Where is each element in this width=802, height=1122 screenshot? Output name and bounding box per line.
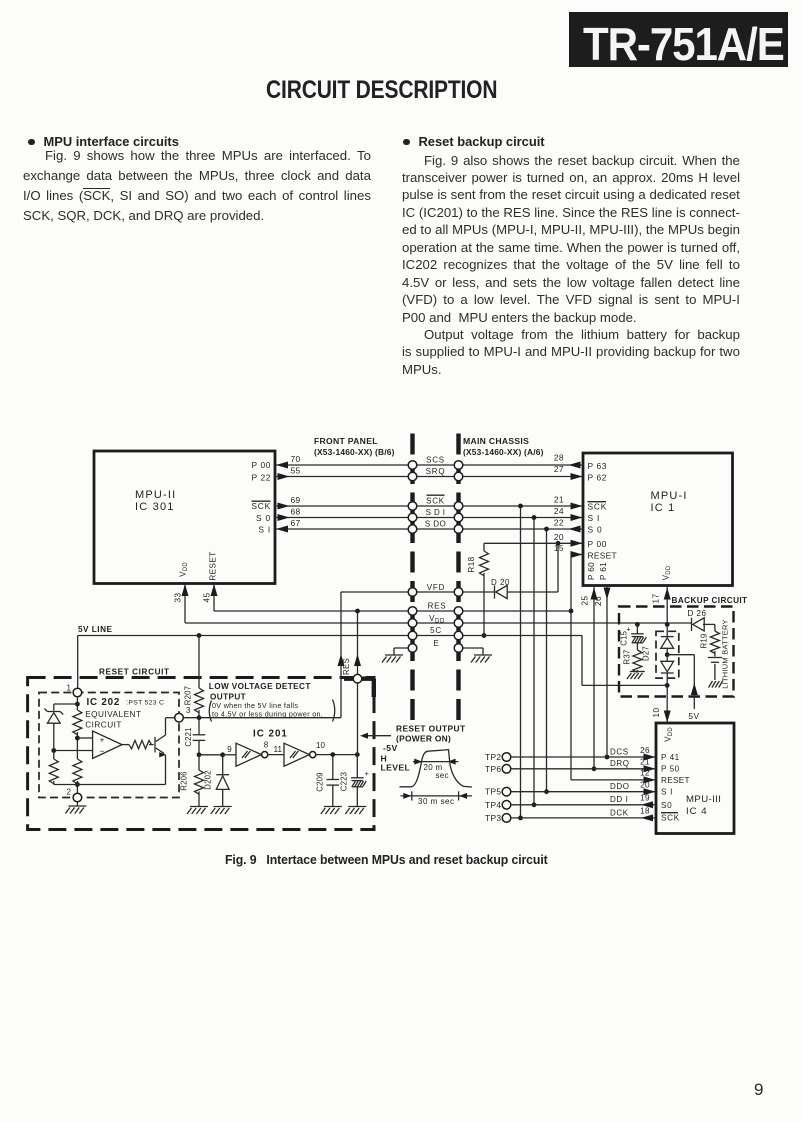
- wire P00 into MPU-I pin 20: [554, 532, 583, 547]
- svg-text:S I: S I: [661, 788, 673, 797]
- zener diode: [44, 709, 63, 751]
- svg-text:TP6: TP6: [485, 764, 501, 774]
- svg-text:P 62: P 62: [588, 473, 607, 483]
- resistor R207: [184, 636, 204, 718]
- svg-text:SCK: SCK: [426, 496, 445, 505]
- svg-text:RESET OUTPUT: RESET OUTPUT: [396, 724, 466, 734]
- vertical wire SDO to DDO: [544, 527, 549, 795]
- svg-text:68: 68: [290, 506, 300, 516]
- wire D20 to P00 junction: [508, 541, 561, 592]
- wire P22-SRQ-P62 row: [275, 464, 583, 480]
- wire MPU-I VDD pin 17 down into backup: [652, 587, 671, 637]
- svg-text:S D I: S D I: [426, 508, 446, 517]
- net labels SCS SRQ SCK SDI SDO: [425, 455, 446, 528]
- svg-text:RES: RES: [342, 658, 351, 675]
- svg-text:MAIN CHASSIS: MAIN CHASSIS: [463, 436, 529, 446]
- svg-text:D27: D27: [642, 646, 651, 661]
- svg-text:P 00: P 00: [588, 539, 607, 549]
- svg-text:SCK: SCK: [661, 814, 680, 823]
- emitter rail: [54, 784, 166, 786]
- vertical wire RES to MPU-III RESET: [569, 555, 656, 784]
- svg-text:10: 10: [316, 741, 325, 750]
- svg-text:P 00: P 00: [252, 460, 271, 470]
- wire E row left stub + ground: [382, 639, 440, 663]
- svg-text:DCS: DCS: [610, 747, 629, 756]
- svg-text:CIRCUIT: CIRCUIT: [85, 721, 122, 730]
- MPU-III pin labels: [661, 753, 690, 823]
- IC202 equivalent dashed box: [39, 693, 179, 798]
- reset pulse waveform: [400, 750, 473, 787]
- IC202 labels: [85, 697, 164, 730]
- svg-text:MPU-III: MPU-III: [686, 794, 721, 805]
- test point TP5 row: [485, 781, 656, 797]
- wire VFD row: [341, 583, 495, 592]
- svg-text:69: 69: [290, 495, 300, 505]
- MPU-III VDD pin 10 label: [652, 708, 674, 742]
- svg-text:SCS: SCS: [426, 455, 445, 464]
- svg-text:S DO: S DO: [425, 519, 446, 528]
- wire 5C row (5V LINE): [78, 625, 668, 693]
- vertical wire MPU-I P60 pin25 to DRQ row: [581, 587, 598, 771]
- svg-text:20: 20: [554, 532, 564, 542]
- svg-text:70: 70: [290, 454, 300, 464]
- resistor R19: [700, 624, 720, 656]
- svg-text:BACKUP CIRCUIT: BACKUP CIRCUIT: [672, 596, 748, 605]
- svg-text:27: 27: [554, 464, 564, 474]
- MPU-II RESET pin 45 label: [203, 551, 218, 602]
- svg-text:S I: S I: [258, 525, 271, 535]
- svg-text:FRONT PANEL: FRONT PANEL: [314, 436, 378, 446]
- svg-text:3: 3: [186, 706, 191, 715]
- svg-text:D 20: D 20: [491, 578, 510, 587]
- inverter 1: [223, 741, 269, 767]
- inverter 2: [268, 741, 326, 766]
- svg-text:(POWER ON): (POWER ON): [396, 734, 451, 744]
- svg-text:8: 8: [264, 741, 269, 750]
- VFD output vertical: [338, 592, 345, 718]
- vertical wire SDI to DDI: [532, 515, 537, 807]
- page heading: [0, 76, 764, 105]
- diode D27 upper: [661, 636, 674, 638]
- MPU-II VDD pin 33 label: [174, 562, 190, 603]
- wire SCK row: [275, 495, 583, 510]
- wire RESET into MPU-I pin 15: [554, 543, 583, 558]
- svg-text:11: 11: [274, 745, 283, 754]
- connector circles on separators, lower rows: [408, 588, 463, 653]
- svg-text:DDO: DDO: [610, 782, 630, 791]
- svg-text:45: 45: [203, 593, 212, 603]
- right column paragraph: [402, 153, 740, 380]
- diode D202 + ground: [199, 752, 232, 814]
- RESET OUTPUT annotation: [360, 724, 466, 773]
- IC201 output wire: [316, 752, 360, 757]
- op-amp comparator: [54, 731, 122, 759]
- node 3: [175, 706, 191, 722]
- svg-text:5V LINE: 5V LINE: [78, 625, 112, 634]
- svg-text:RESET: RESET: [588, 551, 617, 561]
- svg-text:IC 1: IC 1: [651, 502, 676, 514]
- svg-text:0V when the 5V line falls: 0V when the 5V line falls: [212, 701, 298, 710]
- 30 ms dimension: [401, 791, 473, 806]
- 5V feed arrow: [667, 655, 699, 721]
- svg-text:VFD: VFD: [427, 583, 445, 592]
- reset box corner stub at RES node: [344, 679, 375, 697]
- svg-text:P 50: P 50: [661, 765, 680, 774]
- svg-text:LITHIUM BATTERY: LITHIUM BATTERY: [720, 619, 729, 689]
- capacitor C209 + ground: [316, 755, 342, 814]
- svg-text:S I: S I: [588, 513, 601, 523]
- svg-text:TP5: TP5: [485, 787, 501, 797]
- svg-text:26: 26: [640, 746, 650, 755]
- lithium battery cell: [708, 658, 722, 681]
- svg-text:19: 19: [640, 794, 650, 803]
- front panel dashed separator line: [410, 434, 414, 724]
- main chassis dashed separator line: [456, 434, 460, 724]
- svg-text:10: 10: [652, 708, 661, 718]
- svg-text:RESET: RESET: [209, 551, 218, 580]
- backup circuit dashed box: [619, 607, 734, 697]
- svg-text:EQUIVALENT: EQUIVALENT: [85, 710, 141, 719]
- diode D26: [688, 609, 707, 631]
- left column paragraph: [23, 148, 371, 228]
- svg-text:IC 202: IC 202: [87, 697, 121, 708]
- svg-text:SCK: SCK: [588, 502, 608, 512]
- svg-text:55: 55: [290, 465, 300, 475]
- svg-text:−: −: [100, 746, 105, 756]
- vertical wire MPU-I P61 pin26 to DCS row: [594, 587, 611, 759]
- wire VDD row: [182, 584, 692, 625]
- svg-text:P 60: P 60: [587, 562, 596, 580]
- capacitor C223 + ground: [340, 755, 370, 814]
- svg-text:P 61: P 61: [599, 562, 608, 580]
- battery ground: [709, 681, 723, 688]
- svg-text:P 41: P 41: [661, 753, 680, 762]
- MPU-II IC301 box: [94, 451, 275, 584]
- svg-text:TP3: TP3: [485, 813, 501, 823]
- center lower resistor: [73, 759, 82, 793]
- reset circuit dashed box: [28, 678, 374, 830]
- wire node3 output: [183, 715, 341, 720]
- RES node vertical: [342, 611, 362, 755]
- capacitor C221: [184, 718, 205, 757]
- model name black box TR-751A/E: [569, 12, 788, 67]
- svg-text:IC 4: IC 4: [686, 806, 708, 817]
- figure caption: [225, 852, 548, 867]
- MAIN CHASSIS label: [463, 436, 544, 457]
- svg-text:20: 20: [640, 781, 650, 790]
- svg-text:C209: C209: [316, 772, 325, 791]
- svg-text:5C: 5C: [430, 626, 442, 635]
- wire SDO row: [275, 518, 583, 533]
- svg-text:-5V: -5V: [383, 743, 398, 753]
- MPU-III IC4 box: [656, 723, 734, 834]
- vertical wire SCK to DCK: [518, 504, 523, 821]
- wire RES row: [211, 584, 572, 614]
- svg-text:30 m sec: 30 m sec: [418, 797, 454, 806]
- ground below node 2: [65, 802, 86, 814]
- svg-text:21: 21: [640, 758, 650, 767]
- svg-text:IC 301: IC 301: [135, 501, 175, 513]
- svg-text:(X53-1460-XX) (B/6): (X53-1460-XX) (B/6): [314, 447, 395, 457]
- node 1: [67, 684, 82, 697]
- svg-text:RES: RES: [428, 602, 447, 611]
- svg-text:33: 33: [174, 593, 183, 603]
- transistor Q: [155, 718, 175, 785]
- LOW VOLTAGE DETECT OUTPUT annotation: [209, 682, 335, 722]
- svg-text:21: 21: [554, 495, 564, 505]
- svg-text:sec: sec: [436, 771, 449, 780]
- svg-text:25: 25: [581, 596, 590, 606]
- svg-text:18: 18: [640, 807, 650, 816]
- svg-text:TP2: TP2: [485, 752, 501, 762]
- svg-text:R206: R206: [180, 771, 189, 790]
- svg-text:RESET CIRCUIT: RESET CIRCUIT: [99, 668, 170, 677]
- svg-text:28: 28: [554, 452, 564, 462]
- svg-text:VDD: VDD: [664, 727, 675, 742]
- capacitor C15: [620, 622, 647, 650]
- wire into MPU-III VDD pin 10: [664, 685, 671, 722]
- svg-text:SRQ: SRQ: [426, 467, 446, 476]
- svg-text:C223: C223: [340, 772, 349, 791]
- left lower resistor: [49, 748, 58, 784]
- wire SDI row: [275, 506, 583, 521]
- svg-text:P 22: P 22: [252, 473, 271, 483]
- svg-text:1: 1: [67, 684, 72, 693]
- diode D20: [491, 578, 510, 599]
- svg-text:D 26: D 26: [688, 609, 707, 618]
- test point TP6 row: [485, 758, 656, 774]
- svg-text:67: 67: [290, 518, 300, 528]
- test point TP2 row: [485, 746, 656, 762]
- svg-text:RESET: RESET: [661, 776, 690, 785]
- svg-text:S 0: S 0: [256, 513, 271, 523]
- svg-text:C15: C15: [620, 630, 629, 645]
- svg-text:5V: 5V: [688, 711, 699, 721]
- MPU-I pin labels: [588, 461, 617, 561]
- diode D27 lower: [661, 648, 674, 688]
- resistor R37 + ground: [623, 650, 645, 679]
- svg-text:TP4: TP4: [485, 800, 501, 810]
- MPU-I IC1 box: [583, 453, 733, 586]
- left column heading: [28, 134, 179, 149]
- svg-text:9: 9: [227, 745, 232, 754]
- svg-text:22: 22: [554, 518, 564, 528]
- svg-text:24: 24: [554, 506, 564, 516]
- page number: [754, 1080, 763, 1100]
- FRONT PANEL label: [314, 436, 395, 457]
- svg-text:D202: D202: [204, 770, 213, 789]
- svg-text:DD I: DD I: [610, 795, 628, 804]
- svg-text:LOW VOLTAGE DETECT: LOW VOLTAGE DETECT: [209, 682, 311, 691]
- svg-text:+: +: [365, 769, 370, 778]
- wire E row right stub + ground: [459, 648, 493, 663]
- connector circles on separators, top rows: [408, 461, 463, 534]
- svg-text:S0: S0: [661, 801, 672, 810]
- test point TP4 row: [485, 794, 656, 810]
- svg-text:26: 26: [594, 596, 603, 606]
- svg-text:R37: R37: [623, 650, 632, 665]
- svg-text:DRQ: DRQ: [610, 759, 630, 768]
- svg-text:to 4.5V or less during power o: to 4.5V or less during power on.: [212, 710, 323, 719]
- svg-text:S 0: S 0: [588, 525, 603, 535]
- resistor R206 + ground: [180, 755, 209, 814]
- svg-text:C221: C221: [184, 727, 193, 746]
- svg-text:R207: R207: [184, 686, 193, 705]
- svg-text:(X53-1460-XX) (A/6): (X53-1460-XX) (A/6): [463, 447, 544, 457]
- svg-text:MPU-II: MPU-II: [135, 489, 176, 501]
- svg-text:VDD: VDD: [179, 562, 190, 577]
- center upper resistor: [73, 710, 82, 759]
- svg-text:VDD: VDD: [429, 614, 445, 625]
- svg-text:SCK: SCK: [251, 501, 271, 511]
- test point TP3 row: [485, 807, 656, 823]
- wire node1 to divider: [54, 697, 80, 711]
- svg-text:E: E: [433, 639, 439, 648]
- svg-text:2: 2: [67, 788, 72, 797]
- right column heading: [403, 134, 545, 149]
- 20 ms dimension: [413, 759, 458, 780]
- svg-text::PST 523 C: :PST 523 C: [126, 698, 164, 707]
- svg-text:P 63: P 63: [588, 461, 607, 471]
- svg-text:LEVEL: LEVEL: [381, 763, 411, 773]
- wire P00-SCS-P63 row: [275, 452, 583, 468]
- svg-text:17: 17: [652, 594, 661, 604]
- MPU-I P60 P61 VDD labels: [587, 562, 672, 580]
- resistor R18 pull-up: [467, 543, 558, 638]
- D27 dashed box: [642, 631, 679, 678]
- svg-text:DCK: DCK: [610, 808, 629, 817]
- svg-text:+: +: [100, 735, 105, 745]
- svg-text:IC 201: IC 201: [253, 729, 288, 740]
- MPU-II pin labels: [251, 460, 271, 535]
- svg-text:R19: R19: [700, 634, 709, 649]
- svg-text:MPU-I: MPU-I: [651, 490, 688, 502]
- feedback resistor to base: [122, 740, 154, 748]
- svg-text:VDD: VDD: [662, 565, 673, 580]
- svg-text:R18: R18: [467, 556, 476, 572]
- node 2: [67, 788, 82, 802]
